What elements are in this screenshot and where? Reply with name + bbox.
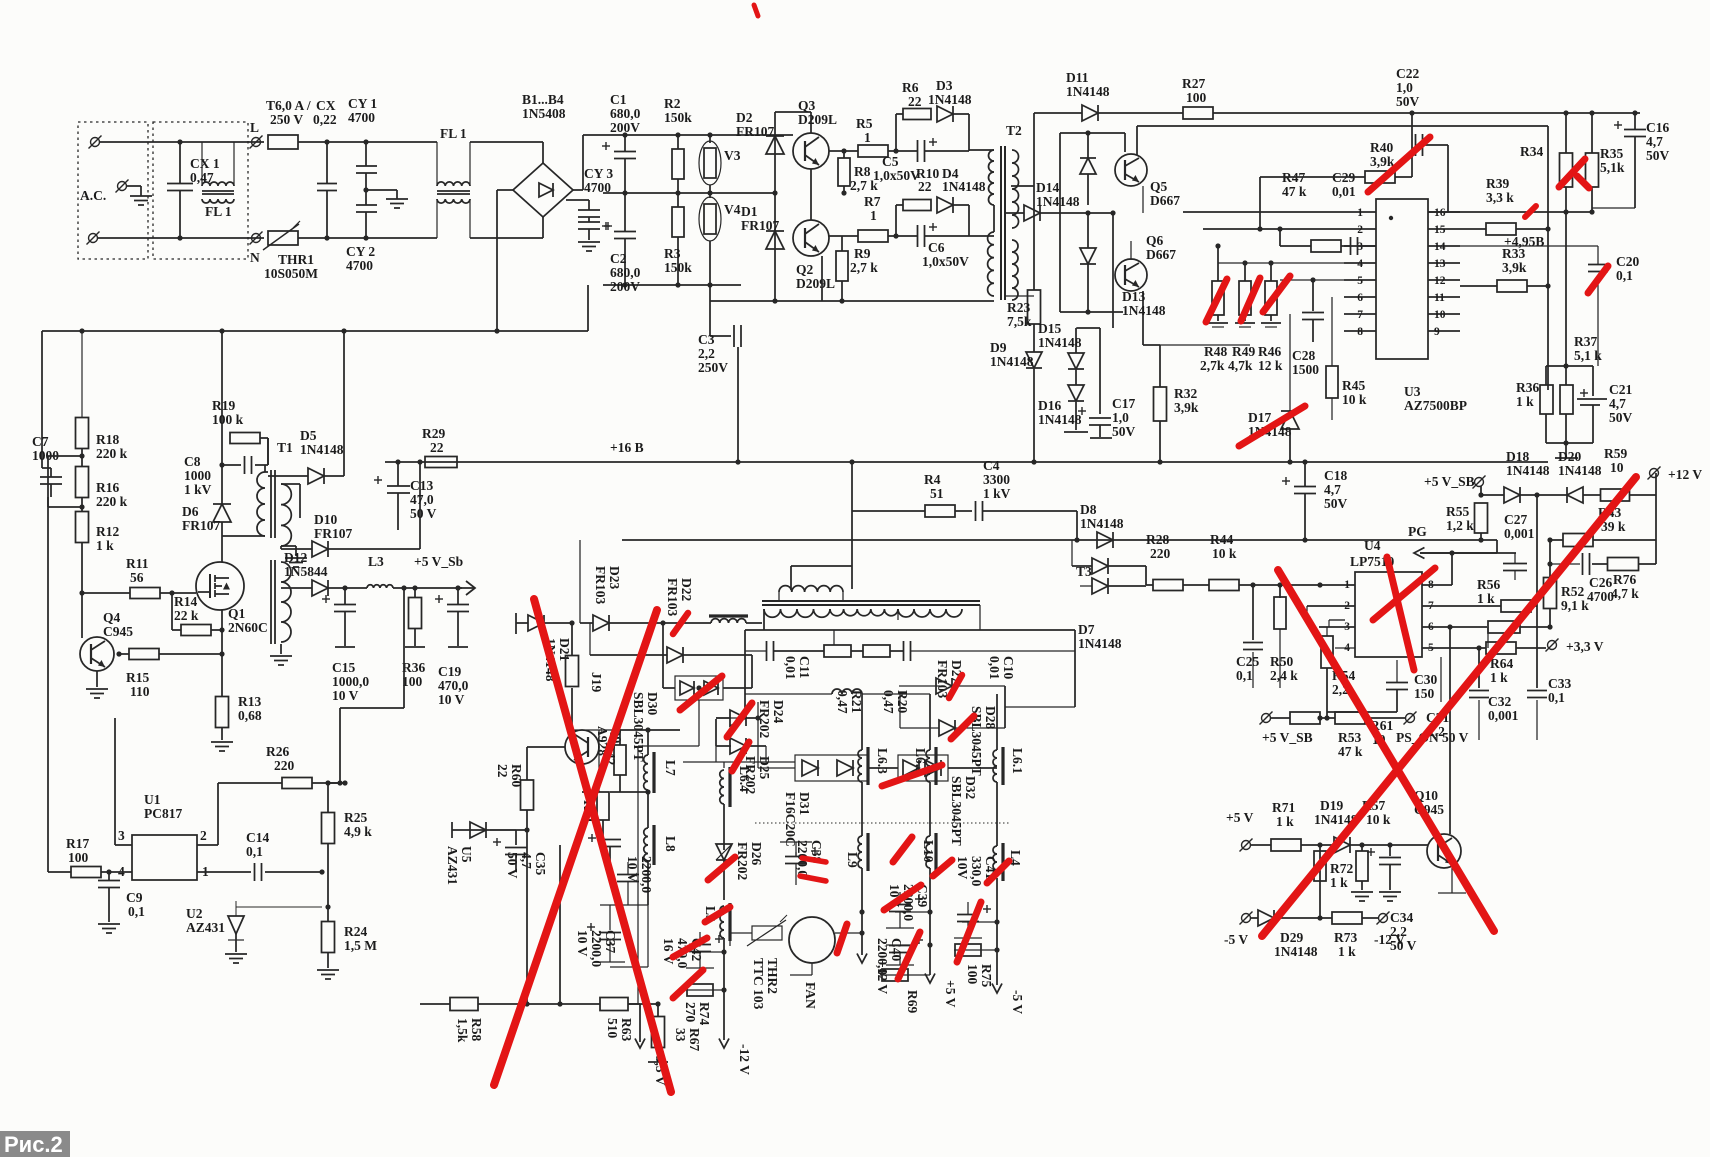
svg-text:PC817: PC817: [144, 806, 182, 821]
svg-text:R8: R8: [854, 164, 871, 179]
svg-text:R36: R36: [1516, 380, 1539, 395]
svg-text:1 k: 1 k: [1276, 814, 1294, 829]
svg-text:4,7 k: 4,7 k: [1611, 586, 1639, 601]
svg-text:V3: V3: [724, 148, 741, 163]
svg-text:4,7: 4,7: [1609, 396, 1626, 411]
svg-text:+12 V: +12 V: [1668, 467, 1702, 482]
svg-text:D8: D8: [1080, 502, 1097, 517]
svg-text:R5: R5: [856, 116, 873, 131]
svg-text:R13: R13: [238, 694, 261, 709]
svg-text:L8: L8: [663, 836, 678, 852]
svg-text:C28: C28: [1292, 348, 1315, 363]
svg-text:R24: R24: [344, 924, 367, 939]
svg-text:680,0: 680,0: [610, 265, 641, 280]
svg-text:1,0: 1,0: [1396, 80, 1413, 95]
svg-text:A.C.: A.C.: [80, 188, 106, 203]
svg-text:R6: R6: [902, 80, 919, 95]
svg-text:C11: C11: [797, 656, 812, 679]
svg-text:50V: 50V: [1609, 410, 1633, 425]
svg-text:C26: C26: [1589, 575, 1612, 590]
svg-text:TTC 103: TTC 103: [751, 958, 766, 1010]
svg-text:1 k: 1 k: [1330, 875, 1348, 890]
svg-text:1N4148: 1N4148: [1506, 463, 1550, 478]
svg-text:R71: R71: [1272, 800, 1295, 815]
svg-text:SBL3045PT: SBL3045PT: [949, 776, 964, 846]
svg-text:R69: R69: [905, 990, 920, 1013]
svg-text:C35: C35: [533, 852, 548, 875]
svg-text:D30: D30: [645, 692, 660, 715]
svg-text:D667: D667: [1150, 193, 1180, 208]
svg-text:100: 100: [1186, 90, 1207, 105]
svg-text:1: 1: [870, 208, 877, 223]
svg-text:15: 15: [1434, 224, 1446, 236]
svg-text:R29: R29: [422, 426, 445, 441]
svg-text:1N4148: 1N4148: [928, 92, 972, 107]
svg-text:47 k: 47 k: [1338, 744, 1363, 759]
svg-text:3,9k: 3,9k: [1174, 400, 1199, 415]
svg-text:D10: D10: [314, 512, 337, 527]
svg-text:47,0: 47,0: [410, 492, 434, 507]
svg-text:R25: R25: [344, 810, 367, 825]
svg-text:L10: L10: [921, 840, 936, 863]
svg-text:C25: C25: [1236, 654, 1259, 669]
svg-text:PG: PG: [1408, 524, 1427, 539]
svg-text:1N4148: 1N4148: [1122, 303, 1166, 318]
svg-text:47 k: 47 k: [1282, 184, 1307, 199]
svg-text:R11: R11: [126, 556, 149, 571]
svg-text:8: 8: [1357, 326, 1363, 338]
svg-text:C7: C7: [32, 434, 49, 449]
svg-text:150: 150: [1414, 686, 1435, 701]
svg-text:U1: U1: [144, 792, 161, 807]
svg-text:2: 2: [1357, 224, 1363, 236]
svg-text:1N4148: 1N4148: [1078, 636, 1122, 651]
svg-text:12: 12: [1434, 275, 1446, 287]
svg-text:0,1: 0,1: [128, 904, 145, 919]
svg-text:4,7k: 4,7k: [1228, 358, 1253, 373]
svg-text:-5 V: -5 V: [1224, 932, 1248, 947]
svg-text:R67: R67: [687, 1028, 702, 1051]
svg-text:C10: C10: [1001, 656, 1016, 679]
svg-text:C16: C16: [1646, 120, 1669, 135]
svg-text:C33: C33: [1548, 676, 1571, 691]
svg-text:R32: R32: [1174, 386, 1197, 401]
svg-text:Q6: Q6: [1146, 233, 1164, 248]
svg-text:13: 13: [1434, 258, 1446, 270]
svg-text:U3: U3: [1404, 384, 1421, 399]
svg-text:50 V: 50 V: [505, 852, 520, 879]
svg-text:100 k: 100 k: [212, 412, 244, 427]
svg-text:D23: D23: [607, 566, 622, 589]
svg-text:C34: C34: [1390, 910, 1413, 925]
svg-text:0,1: 0,1: [246, 844, 263, 859]
svg-text:C21: C21: [1609, 382, 1632, 397]
svg-text:0,1: 0,1: [1616, 268, 1633, 283]
svg-text:1000,0: 1000,0: [332, 674, 369, 689]
svg-text:R74: R74: [697, 1002, 712, 1025]
svg-text:R63: R63: [619, 1018, 634, 1041]
svg-text:C19: C19: [438, 664, 461, 679]
svg-text:0,22: 0,22: [313, 112, 337, 127]
svg-text:1 k: 1 k: [1490, 670, 1508, 685]
svg-text:4,9 k: 4,9 k: [344, 824, 372, 839]
svg-text:4700: 4700: [346, 258, 373, 273]
svg-text:D16: D16: [1038, 398, 1061, 413]
svg-text:2200,0: 2200,0: [589, 930, 604, 967]
svg-text:22: 22: [908, 94, 922, 109]
svg-text:10 V: 10 V: [438, 692, 465, 707]
svg-text:1,0x50V: 1,0x50V: [922, 254, 969, 269]
svg-text:D28: D28: [983, 706, 998, 729]
svg-text:CY 2: CY 2: [346, 244, 375, 259]
svg-text:C1: C1: [610, 92, 627, 107]
svg-text:16 V: 16 V: [661, 938, 676, 965]
svg-text:1 kV: 1 kV: [983, 486, 1011, 501]
svg-text:33: 33: [673, 1028, 688, 1042]
svg-text:-12 V: -12 V: [1374, 932, 1405, 947]
svg-text:R27: R27: [1182, 76, 1205, 91]
svg-text:D26: D26: [749, 842, 764, 865]
svg-text:R72: R72: [1330, 861, 1353, 876]
svg-text:R44: R44: [1210, 532, 1233, 547]
svg-text:Q5: Q5: [1150, 179, 1168, 194]
svg-text:C14: C14: [246, 830, 269, 845]
svg-text:5: 5: [1357, 275, 1363, 287]
svg-text:R46: R46: [1258, 344, 1281, 359]
svg-text:10S050M: 10S050M: [264, 266, 318, 281]
svg-text:220 k: 220 k: [96, 494, 128, 509]
svg-text:R36: R36: [402, 660, 425, 675]
svg-text:56: 56: [130, 570, 144, 585]
svg-text:2,4 k: 2,4 k: [1270, 668, 1298, 683]
svg-text:1N4148: 1N4148: [1038, 412, 1082, 427]
svg-text:470,0: 470,0: [438, 678, 469, 693]
svg-text:R37: R37: [1574, 334, 1597, 349]
svg-text:1,0: 1,0: [1112, 410, 1129, 425]
svg-text:220 k: 220 k: [96, 446, 128, 461]
svg-text:1,5 M: 1,5 M: [344, 938, 377, 953]
svg-text:51: 51: [930, 486, 944, 501]
svg-text:2,7k: 2,7k: [1200, 358, 1225, 373]
svg-text:C18: C18: [1324, 468, 1347, 483]
svg-text:1: 1: [1357, 207, 1363, 219]
svg-text:THR1: THR1: [278, 252, 314, 267]
svg-text:1N4148: 1N4148: [1036, 194, 1080, 209]
svg-text:C4: C4: [983, 458, 1000, 473]
svg-text:0,01: 0,01: [783, 656, 798, 680]
svg-text:1,0x50V: 1,0x50V: [873, 168, 920, 183]
svg-text:4,7: 4,7: [1646, 134, 1663, 149]
svg-text:C20: C20: [1616, 254, 1639, 269]
svg-text:FR107: FR107: [182, 518, 220, 533]
svg-text:R76: R76: [1613, 572, 1636, 587]
svg-text:22: 22: [918, 179, 932, 194]
svg-text:C8: C8: [184, 454, 201, 469]
svg-text:3: 3: [118, 828, 125, 843]
svg-text:D22: D22: [679, 578, 694, 601]
svg-text:C13: C13: [410, 478, 433, 493]
svg-text:R26: R26: [266, 744, 289, 759]
svg-text:R40: R40: [1370, 140, 1393, 155]
svg-text:C5: C5: [882, 154, 899, 169]
svg-text:1: 1: [864, 130, 871, 145]
svg-text:1 k: 1 k: [1338, 944, 1356, 959]
svg-text:2200,0: 2200,0: [639, 856, 654, 893]
svg-text:680,0: 680,0: [610, 106, 641, 121]
svg-text:D2: D2: [736, 110, 753, 125]
svg-text:R59: R59: [1604, 446, 1627, 461]
svg-text:50 V: 50 V: [410, 506, 437, 521]
svg-text:4,7: 4,7: [1324, 482, 1341, 497]
svg-text:R3: R3: [664, 246, 681, 261]
svg-text:FR107: FR107: [741, 218, 779, 233]
svg-text:10: 10: [1610, 460, 1624, 475]
svg-text:V4: V4: [724, 202, 741, 217]
svg-text:D7: D7: [1078, 622, 1095, 637]
svg-text:T2: T2: [1006, 123, 1022, 138]
svg-text:D18: D18: [1506, 449, 1529, 464]
svg-text:200V: 200V: [610, 120, 640, 135]
svg-text:+5 V: +5 V: [1226, 810, 1254, 825]
svg-text:R4: R4: [924, 472, 941, 487]
svg-text:R23: R23: [1007, 300, 1030, 315]
svg-text:R53: R53: [1338, 730, 1361, 745]
svg-text:200V: 200V: [610, 279, 640, 294]
svg-text:D29: D29: [1280, 930, 1303, 945]
svg-text:0,01: 0,01: [987, 656, 1002, 680]
svg-text:D31: D31: [797, 792, 812, 815]
svg-text:AZ431: AZ431: [445, 846, 460, 885]
svg-text:D11: D11: [1066, 70, 1089, 85]
svg-text:L3: L3: [368, 554, 384, 569]
svg-text:Q3: Q3: [798, 98, 816, 113]
svg-text:10 V: 10 V: [575, 930, 590, 957]
svg-text:50 V: 50 V: [1442, 730, 1469, 745]
svg-text:R45: R45: [1342, 378, 1365, 393]
svg-text:7,5k: 7,5k: [1007, 314, 1032, 329]
svg-text:C22: C22: [1396, 66, 1419, 81]
svg-text:10 k: 10 k: [1212, 546, 1237, 561]
svg-text:2,7 k: 2,7 k: [850, 260, 878, 275]
svg-text:R28: R28: [1146, 532, 1169, 547]
svg-text:1N4148: 1N4148: [990, 354, 1034, 369]
svg-text:J19: J19: [589, 672, 604, 693]
svg-text:150k: 150k: [664, 260, 692, 275]
svg-text:D1: D1: [741, 204, 758, 219]
svg-text:50V: 50V: [1646, 148, 1670, 163]
svg-text:L6.3: L6.3: [875, 748, 890, 774]
svg-text:10 k: 10 k: [1366, 812, 1391, 827]
svg-text:D9: D9: [990, 340, 1007, 355]
svg-text:1 k: 1 k: [1516, 394, 1534, 409]
svg-text:R14: R14: [174, 594, 197, 609]
svg-text:FL 1: FL 1: [205, 204, 232, 219]
svg-text:D32: D32: [963, 776, 978, 799]
svg-text:4700: 4700: [584, 180, 611, 195]
svg-text:D17: D17: [1248, 410, 1271, 425]
svg-text:0,68: 0,68: [238, 708, 262, 723]
svg-text:L6.4: L6.4: [737, 766, 752, 792]
svg-text:1,2 k: 1,2 k: [1446, 518, 1474, 533]
svg-text:50V: 50V: [1324, 496, 1348, 511]
svg-text:C945: C945: [103, 624, 133, 639]
svg-text:U4: U4: [1364, 538, 1381, 553]
svg-text:-12 V: -12 V: [737, 1044, 752, 1075]
svg-text:CY 3: CY 3: [584, 166, 613, 181]
svg-text:2,2: 2,2: [698, 346, 715, 361]
svg-text:AZ7500BP: AZ7500BP: [1404, 398, 1467, 413]
svg-text:L6.1: L6.1: [1010, 748, 1025, 774]
svg-text:100: 100: [68, 850, 89, 865]
svg-text:R48: R48: [1204, 344, 1227, 359]
svg-text:0,001: 0,001: [1504, 526, 1535, 541]
svg-text:C40: C40: [889, 938, 904, 961]
svg-text:R73: R73: [1334, 930, 1357, 945]
svg-text:1N5408: 1N5408: [522, 106, 566, 121]
svg-text:D15: D15: [1038, 321, 1061, 336]
svg-text:CX: CX: [316, 98, 336, 113]
svg-text:50V: 50V: [1396, 94, 1420, 109]
svg-text:D5: D5: [300, 428, 317, 443]
svg-text:-5 V: -5 V: [1010, 990, 1025, 1014]
svg-text:100: 100: [965, 964, 980, 985]
svg-text:C9: C9: [126, 890, 143, 905]
svg-text:CX 1: CX 1: [190, 156, 220, 171]
svg-text:C30: C30: [1414, 672, 1437, 687]
svg-text:0,01: 0,01: [1332, 184, 1356, 199]
svg-text:D209L: D209L: [796, 276, 835, 291]
svg-text:AZ431: AZ431: [186, 920, 225, 935]
svg-text:250V: 250V: [698, 360, 728, 375]
svg-text:+16 B: +16 B: [610, 440, 644, 455]
svg-text:D667: D667: [1146, 247, 1176, 262]
svg-text:D13: D13: [1122, 289, 1145, 304]
svg-text:1500: 1500: [1292, 362, 1319, 377]
svg-text:C3: C3: [698, 332, 715, 347]
svg-text:1: 1: [1344, 579, 1350, 591]
svg-text:B1...B4: B1...B4: [522, 92, 564, 107]
svg-text:4700: 4700: [348, 110, 375, 125]
svg-text:R17: R17: [66, 836, 89, 851]
svg-text:FR103: FR103: [665, 578, 680, 616]
svg-text:50V: 50V: [1112, 424, 1136, 439]
svg-text:R12: R12: [96, 524, 119, 539]
svg-text:L7: L7: [663, 760, 678, 776]
svg-text:D6: D6: [182, 504, 199, 519]
svg-text:D20: D20: [1558, 449, 1581, 464]
svg-text:FR202: FR202: [757, 700, 772, 738]
svg-text:T6,0 A /: T6,0 A /: [266, 98, 311, 113]
svg-text:R18: R18: [96, 432, 119, 447]
svg-text:R34: R34: [1520, 144, 1543, 159]
svg-text:1N4148: 1N4148: [1066, 84, 1110, 99]
svg-text:D21: D21: [557, 638, 572, 661]
svg-text:14: 14: [1434, 241, 1446, 253]
svg-text:D209L: D209L: [798, 112, 837, 127]
svg-text:250 V: 250 V: [270, 112, 303, 127]
svg-text:9: 9: [1434, 326, 1440, 338]
svg-text:510: 510: [605, 1018, 620, 1039]
svg-text:7: 7: [1357, 309, 1363, 321]
svg-text:D14: D14: [1036, 180, 1059, 195]
svg-text:C2: C2: [610, 251, 627, 266]
svg-text:330,0: 330,0: [969, 856, 984, 887]
svg-text:R35: R35: [1600, 146, 1623, 161]
svg-text:FAN: FAN: [803, 982, 818, 1009]
svg-text:100: 100: [402, 674, 423, 689]
svg-text:1000: 1000: [184, 468, 211, 483]
svg-text:T1: T1: [277, 440, 293, 455]
svg-text:1N4148: 1N4148: [1558, 463, 1602, 478]
svg-text:CY 1: CY 1: [348, 96, 377, 111]
svg-text:1 kV: 1 kV: [184, 482, 212, 497]
svg-text:R50: R50: [1270, 654, 1293, 669]
svg-text:5,1k: 5,1k: [1600, 160, 1625, 175]
svg-text:+5 V: +5 V: [943, 980, 958, 1008]
svg-text:R39: R39: [1486, 176, 1509, 191]
svg-text:U5: U5: [459, 846, 474, 863]
svg-text:R9: R9: [854, 246, 871, 261]
svg-text:N: N: [250, 250, 260, 265]
svg-text:2N60C: 2N60C: [228, 620, 268, 635]
svg-text:10V: 10V: [955, 856, 970, 880]
svg-text:R15: R15: [126, 670, 149, 685]
svg-text:22: 22: [495, 764, 510, 778]
svg-text:R75: R75: [979, 964, 994, 987]
svg-text:THR2: THR2: [765, 958, 780, 994]
svg-text:R52: R52: [1561, 584, 1584, 599]
svg-text:10 k: 10 k: [1342, 392, 1367, 407]
svg-text:R64: R64: [1490, 656, 1513, 671]
svg-text:F16C20C: F16C20C: [783, 792, 798, 847]
svg-text:1N4148: 1N4148: [1080, 516, 1124, 531]
svg-text:0,001: 0,001: [1488, 708, 1519, 723]
svg-text:+5 V_SB: +5 V_SB: [1262, 730, 1313, 745]
svg-text:1,5k: 1,5k: [455, 1018, 470, 1043]
svg-text:FR107: FR107: [314, 526, 352, 541]
svg-text:Рис.2: Рис.2: [4, 1132, 63, 1157]
svg-text:C6: C6: [928, 240, 945, 255]
svg-text:C27: C27: [1504, 512, 1527, 527]
svg-text:3,9k: 3,9k: [1502, 260, 1527, 275]
svg-text:+5 V_SB: +5 V_SB: [1424, 474, 1475, 489]
svg-text:FR202: FR202: [735, 842, 750, 880]
svg-text:16: 16: [1434, 207, 1446, 219]
svg-text:R7: R7: [864, 194, 881, 209]
svg-text:2: 2: [200, 828, 207, 843]
svg-text:R2: R2: [664, 96, 681, 111]
svg-text:150k: 150k: [664, 110, 692, 125]
svg-text:FL 1: FL 1: [440, 126, 467, 141]
svg-text:Q2: Q2: [796, 262, 814, 277]
svg-text:FR107: FR107: [736, 124, 774, 139]
svg-text:3300: 3300: [983, 472, 1010, 487]
svg-text:4: 4: [1357, 258, 1363, 270]
svg-text:Q4: Q4: [103, 610, 121, 625]
svg-text:+3,3 V: +3,3 V: [1566, 639, 1604, 654]
svg-text:C37: C37: [603, 930, 618, 953]
svg-text:L9: L9: [845, 852, 860, 868]
svg-text:110: 110: [130, 684, 150, 699]
svg-text:C17: C17: [1112, 396, 1135, 411]
svg-text:R56: R56: [1477, 577, 1500, 592]
svg-text:1N4148: 1N4148: [942, 179, 986, 194]
svg-text:220: 220: [1150, 546, 1171, 561]
svg-text:22: 22: [430, 440, 444, 455]
svg-text:R49: R49: [1232, 344, 1255, 359]
svg-text:10 V: 10 V: [332, 688, 359, 703]
svg-text:10: 10: [1434, 309, 1446, 321]
